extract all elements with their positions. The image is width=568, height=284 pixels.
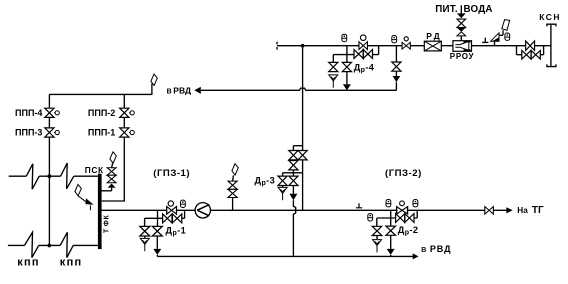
- svg-text:ВОДА: ВОДА: [464, 4, 493, 15]
- svg-text:ППП-2: ППП-2: [88, 108, 115, 118]
- svg-text:ППП-3: ППП-3: [15, 127, 42, 137]
- svg-text:Т: Т: [103, 228, 110, 233]
- svg-text:В: В: [167, 89, 172, 96]
- svg-text:кпп: кпп: [17, 256, 40, 268]
- svg-text:ППП-1: ППП-1: [88, 127, 115, 137]
- svg-text:РВД: РВД: [430, 244, 452, 254]
- svg-text:ППП-4: ППП-4: [15, 108, 42, 118]
- svg-text:К: К: [103, 215, 110, 220]
- svg-text:На: На: [517, 206, 528, 215]
- svg-text:РВД: РВД: [173, 86, 191, 96]
- svg-text:ТГ: ТГ: [532, 205, 544, 216]
- svg-text:кпп: кпп: [60, 256, 83, 268]
- svg-text:КСН: КСН: [539, 12, 561, 22]
- svg-text:ПИТ.: ПИТ.: [435, 4, 458, 15]
- svg-text:ПСК: ПСК: [85, 165, 104, 175]
- svg-text:В: В: [421, 247, 426, 254]
- svg-text:(ГПЗ-2): (ГПЗ-2): [385, 168, 422, 179]
- svg-text:РРОУ: РРОУ: [450, 52, 475, 61]
- svg-text:Ф: Ф: [103, 220, 110, 226]
- svg-text:РД: РД: [426, 31, 442, 41]
- svg-text:(ГПЗ-1): (ГПЗ-1): [153, 168, 190, 179]
